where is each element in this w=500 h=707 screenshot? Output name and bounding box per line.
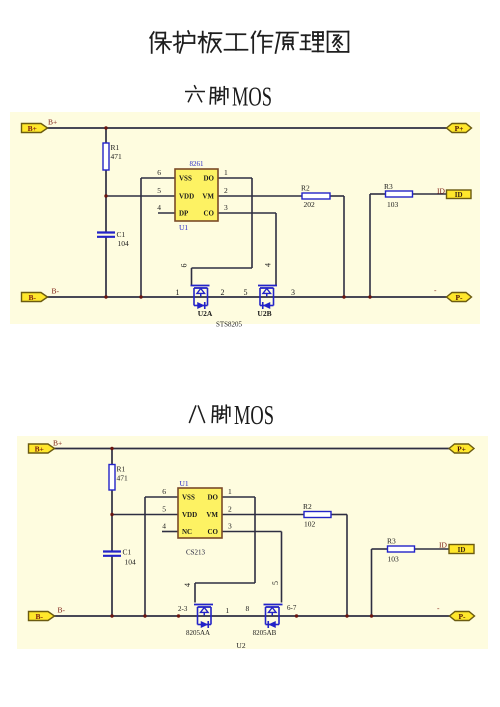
svg-text:2: 2 (224, 186, 228, 195)
svg-text:3: 3 (291, 288, 295, 297)
svg-text:VSS: VSS (179, 175, 192, 183)
svg-text:6: 6 (162, 487, 166, 496)
svg-text:VSS: VSS (182, 494, 195, 502)
svg-text:B-: B- (36, 612, 44, 621)
svg-text:U1: U1 (180, 479, 189, 488)
svg-text:B-: B- (29, 293, 37, 302)
svg-text:4: 4 (157, 203, 161, 212)
svg-text:R1: R1 (117, 465, 126, 474)
svg-text:U1: U1 (179, 223, 188, 232)
svg-text:DO: DO (204, 175, 215, 183)
svg-text:VM: VM (206, 511, 218, 519)
svg-text:MOS: MOS (234, 400, 274, 430)
svg-text:CO: CO (208, 528, 219, 536)
svg-text:B-: B- (58, 606, 66, 615)
svg-text:6-7: 6-7 (287, 604, 297, 612)
svg-text:5: 5 (271, 581, 280, 585)
svg-text:103: 103 (388, 555, 400, 564)
svg-text:R2: R2 (303, 502, 312, 511)
svg-text:B+: B+ (53, 439, 62, 448)
svg-text:VDD: VDD (182, 511, 197, 519)
svg-text:1: 1 (226, 606, 230, 615)
svg-text:CS213: CS213 (186, 549, 206, 557)
svg-text:P+: P+ (457, 444, 466, 453)
svg-text:1: 1 (224, 168, 228, 177)
svg-text:B+: B+ (28, 124, 37, 133)
svg-text:202: 202 (304, 200, 316, 209)
svg-text:6: 6 (157, 168, 161, 177)
svg-text:4: 4 (264, 263, 273, 267)
svg-text:STS8205: STS8205 (216, 321, 243, 329)
svg-text:DO: DO (208, 494, 219, 502)
svg-text:2: 2 (228, 505, 232, 514)
svg-text:B-: B- (52, 287, 60, 296)
svg-text:MOS: MOS (232, 82, 272, 112)
svg-text:U2B: U2B (257, 309, 271, 318)
svg-text:DP: DP (179, 210, 189, 218)
svg-text:103: 103 (387, 200, 399, 209)
svg-text:R3: R3 (387, 537, 396, 546)
svg-text:3: 3 (224, 203, 228, 212)
svg-text:ID: ID (458, 546, 466, 554)
svg-text:ID: ID (455, 191, 463, 199)
svg-text:102: 102 (304, 520, 316, 529)
svg-text:5: 5 (162, 505, 166, 514)
svg-text:U2: U2 (236, 641, 245, 650)
svg-text:2-3: 2-3 (178, 605, 188, 613)
svg-text:R2: R2 (301, 184, 310, 193)
svg-text:P+: P+ (455, 124, 464, 133)
svg-text:VM: VM (202, 193, 214, 201)
svg-text:NC: NC (182, 528, 192, 536)
svg-text:4: 4 (183, 583, 192, 587)
svg-text:1: 1 (176, 288, 180, 297)
svg-text:8205AB: 8205AB (253, 629, 277, 637)
svg-text:4: 4 (162, 522, 166, 531)
svg-text:B+: B+ (48, 118, 57, 127)
svg-text:CO: CO (204, 210, 215, 218)
svg-text:R3: R3 (384, 182, 393, 191)
svg-text:ID: ID (437, 187, 445, 196)
svg-text:104: 104 (118, 239, 130, 248)
svg-text:471: 471 (117, 474, 129, 483)
svg-text:2: 2 (221, 288, 225, 297)
svg-text:U2A: U2A (198, 309, 213, 318)
svg-text:3: 3 (228, 522, 232, 531)
svg-text:8205AA: 8205AA (186, 629, 210, 637)
svg-text:R1: R1 (111, 143, 120, 152)
svg-text:8: 8 (246, 604, 250, 613)
svg-text:104: 104 (125, 558, 137, 567)
svg-text:VDD: VDD (179, 193, 194, 201)
svg-text:P-: P- (455, 293, 463, 302)
svg-text:B+: B+ (35, 444, 44, 453)
svg-text:471: 471 (111, 152, 123, 161)
svg-text:6: 6 (180, 264, 189, 268)
svg-text:5: 5 (244, 288, 248, 297)
svg-text:1: 1 (228, 487, 232, 496)
svg-text:ID: ID (439, 541, 447, 550)
svg-text:P-: P- (458, 612, 466, 621)
svg-text:5: 5 (157, 186, 161, 195)
svg-text:C1: C1 (123, 548, 132, 557)
svg-text:8261: 8261 (190, 160, 205, 168)
svg-text:C1: C1 (117, 230, 126, 239)
